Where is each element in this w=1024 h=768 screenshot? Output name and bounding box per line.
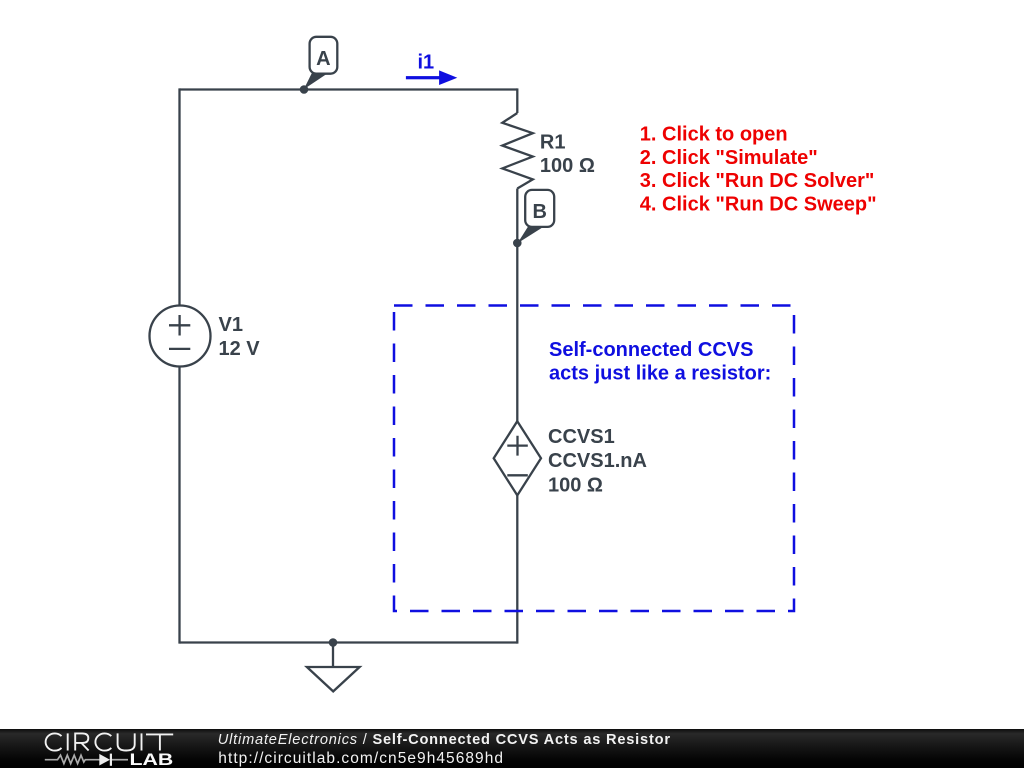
resistor R1: [502, 113, 533, 189]
svg-text:A: A: [316, 48, 330, 70]
logo diode bar: [110, 754, 112, 766]
node A callout pointer: [304, 72, 327, 90]
svg-text:http://circuitlab.com/cn5e9h45: http://circuitlab.com/cn5e9h45689hd: [218, 750, 504, 767]
node B label box: [525, 190, 554, 227]
svg-text:acts just like a resistor:: acts just like a resistor:: [549, 362, 771, 384]
CCVS1 dependent source diamond: [494, 421, 541, 495]
wire left vertical upper: [178, 88, 180, 305]
logo CIRCUIT wordmark: [46, 733, 174, 750]
voltage source V1: [150, 306, 211, 367]
svg-text:UltimateElectronics / Self-Con: UltimateElectronics / Self-Connected CCV…: [218, 732, 671, 748]
ground junction dot: [329, 638, 338, 647]
svg-text:CCVS1.nA: CCVS1.nA: [548, 450, 647, 472]
current arrow i1: [406, 70, 457, 85]
svg-text:R1: R1: [540, 132, 566, 154]
node B callout pointer: [518, 225, 543, 243]
svg-text:Self-connected CCVS: Self-connected CCVS: [549, 339, 753, 361]
svg-text:LAB: LAB: [130, 751, 174, 768]
wire node B to CCVS: [516, 243, 518, 421]
annotation dashed box: [394, 306, 794, 612]
footer bar: [0, 729, 1024, 768]
svg-text:100 Ω: 100 Ω: [548, 475, 603, 497]
node B junction dot: [513, 239, 522, 248]
wire left vertical lower: [178, 367, 180, 644]
node A junction dot: [300, 85, 309, 94]
logo resistor-diode glyph: [45, 755, 128, 763]
wire bottom horizontal: [180, 641, 518, 643]
wire CCVS to bottom: [516, 495, 518, 643]
svg-text:1. Click to open: 1. Click to open: [640, 124, 788, 146]
svg-text:4. Click "Run DC Sweep": 4. Click "Run DC Sweep": [640, 194, 877, 216]
svg-text:CCVS1: CCVS1: [548, 426, 615, 448]
svg-text:100 Ω: 100 Ω: [540, 155, 595, 177]
wire right top lead: [516, 88, 518, 113]
svg-text:3. Click "Run DC Solver": 3. Click "Run DC Solver": [640, 170, 875, 192]
svg-text:B: B: [532, 201, 546, 223]
logo diode triangle: [99, 754, 110, 766]
svg-text:i1: i1: [418, 51, 435, 73]
wire resistor to node B: [516, 189, 518, 244]
svg-text:2. Click "Simulate": 2. Click "Simulate": [640, 147, 818, 169]
svg-text:12 V: 12 V: [219, 338, 261, 360]
node A label box: [310, 37, 338, 74]
svg-text:V1: V1: [219, 314, 243, 336]
wire top horizontal: [180, 88, 518, 90]
ground: [307, 643, 360, 692]
